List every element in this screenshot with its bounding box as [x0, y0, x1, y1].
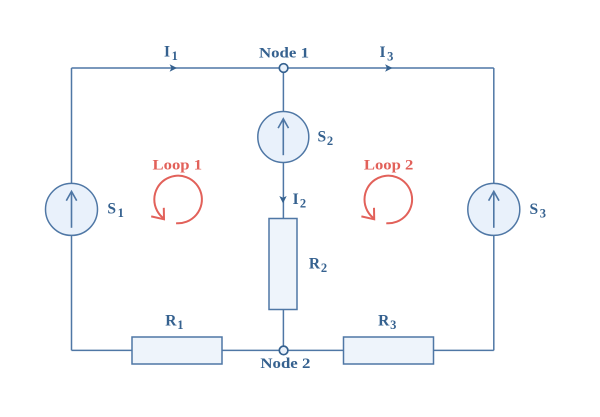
svg-text:S2: S2	[317, 129, 333, 149]
svg-text:R1: R1	[165, 313, 184, 333]
svg-text:R3: R3	[378, 313, 397, 333]
svg-text:I2: I2	[293, 191, 308, 211]
wire right	[493, 68, 495, 350]
wire left	[71, 68, 73, 350]
svg-text:I1: I1	[164, 44, 180, 64]
resistor R1	[132, 337, 222, 364]
node Node 1	[279, 64, 288, 73]
current source S2	[258, 112, 309, 163]
node Node 2	[279, 346, 288, 355]
current source S3	[468, 183, 520, 235]
resistor R3	[344, 337, 434, 364]
loop arrow Loop 2	[361, 176, 412, 224]
current source S1	[46, 183, 98, 235]
current arrow I2	[279, 196, 286, 203]
svg-text:S1: S1	[107, 201, 125, 221]
svg-text:Node 2: Node 2	[260, 356, 310, 372]
loop arrow Loop 1	[151, 176, 202, 224]
wire bottom	[72, 349, 494, 351]
current arrow I3	[385, 64, 392, 71]
wire top	[72, 67, 494, 69]
svg-text:Loop 1: Loop 1	[153, 158, 203, 174]
svg-text:R2: R2	[309, 256, 328, 276]
svg-text:Loop 2: Loop 2	[364, 158, 414, 174]
svg-text:S3: S3	[530, 201, 548, 221]
wire middle branch	[282, 68, 284, 350]
resistor R2	[269, 219, 297, 310]
svg-text:I3: I3	[379, 44, 395, 64]
svg-text:Node 1: Node 1	[259, 46, 309, 62]
current arrow I1	[170, 64, 177, 71]
